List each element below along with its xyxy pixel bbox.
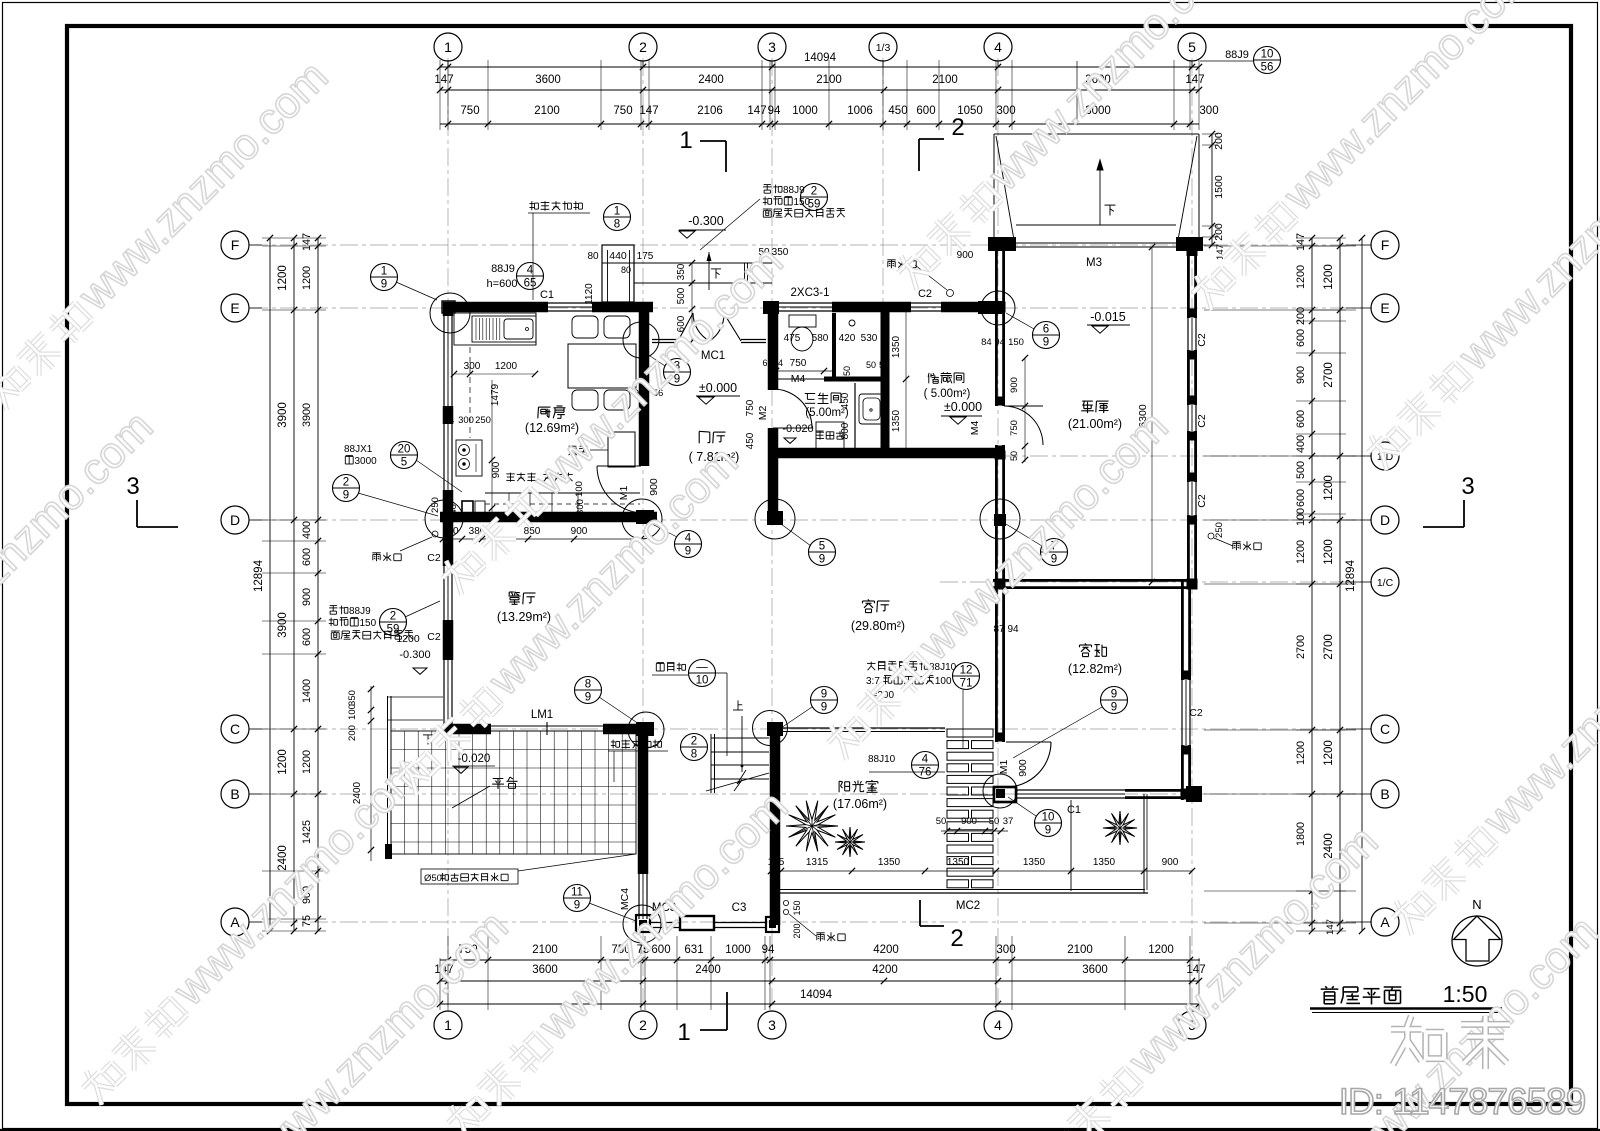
svg-text:-0.300: -0.300 bbox=[688, 214, 723, 228]
svg-text:300: 300 bbox=[464, 361, 481, 372]
svg-text:2100: 2100 bbox=[932, 74, 958, 86]
svg-text:4200: 4200 bbox=[872, 964, 898, 976]
svg-text:88J9: 88J9 bbox=[349, 606, 371, 617]
svg-text:900: 900 bbox=[571, 526, 588, 537]
svg-text:250: 250 bbox=[475, 415, 491, 426]
svg-text:3: 3 bbox=[126, 473, 139, 500]
svg-text:12894: 12894 bbox=[253, 559, 265, 592]
svg-text:2: 2 bbox=[950, 925, 963, 952]
svg-text:3900: 3900 bbox=[277, 612, 289, 638]
svg-text:300: 300 bbox=[996, 944, 1015, 956]
svg-text:1200: 1200 bbox=[1323, 264, 1335, 290]
svg-text:9: 9 bbox=[1111, 702, 1117, 714]
svg-text:10: 10 bbox=[1261, 49, 1274, 61]
svg-text:1200: 1200 bbox=[1323, 539, 1335, 565]
svg-text:1000: 1000 bbox=[792, 105, 818, 117]
svg-text:600: 600 bbox=[916, 105, 935, 117]
svg-text:88J9: 88J9 bbox=[1225, 49, 1249, 61]
svg-text:147: 147 bbox=[1325, 919, 1336, 935]
svg-text:3: 3 bbox=[1461, 473, 1474, 500]
svg-text:20: 20 bbox=[398, 444, 411, 456]
svg-text:80: 80 bbox=[621, 265, 631, 275]
svg-text:Ø50: Ø50 bbox=[424, 873, 442, 884]
svg-text:500: 500 bbox=[676, 287, 687, 304]
svg-text:C2: C2 bbox=[1196, 494, 1208, 508]
svg-text:3: 3 bbox=[768, 1017, 776, 1033]
svg-text:9: 9 bbox=[343, 490, 349, 502]
svg-text:50: 50 bbox=[842, 366, 852, 376]
svg-text:175: 175 bbox=[637, 251, 654, 262]
svg-text:C2: C2 bbox=[1196, 414, 1208, 428]
svg-text:5: 5 bbox=[819, 541, 825, 553]
svg-text:M3: M3 bbox=[1086, 257, 1102, 269]
svg-text:F: F bbox=[1381, 237, 1390, 253]
svg-text:±0.000: ±0.000 bbox=[944, 400, 982, 414]
svg-text:2700: 2700 bbox=[1323, 362, 1335, 388]
svg-text:100: 100 bbox=[1295, 508, 1307, 526]
svg-text:50: 50 bbox=[879, 360, 889, 370]
svg-text:1350: 1350 bbox=[891, 335, 902, 358]
svg-text:A: A bbox=[1380, 914, 1390, 930]
svg-text:94: 94 bbox=[768, 105, 781, 117]
svg-text:94: 94 bbox=[444, 415, 455, 426]
svg-text:MC2: MC2 bbox=[956, 900, 980, 912]
svg-text:LM1: LM1 bbox=[531, 709, 553, 721]
svg-text:2XC3-1: 2XC3-1 bbox=[791, 287, 830, 299]
svg-text:12894: 12894 bbox=[1345, 559, 1357, 592]
svg-text:2: 2 bbox=[343, 477, 349, 489]
svg-text:3600: 3600 bbox=[535, 74, 561, 86]
svg-text:71: 71 bbox=[960, 678, 973, 690]
svg-text:450: 450 bbox=[745, 432, 756, 449]
svg-text:420: 420 bbox=[839, 333, 856, 344]
svg-text:-0.015: -0.015 bbox=[1090, 310, 1125, 324]
svg-text:440: 440 bbox=[609, 250, 627, 262]
svg-text:1200: 1200 bbox=[1295, 265, 1307, 289]
svg-text:12: 12 bbox=[960, 665, 973, 677]
svg-text:1400: 1400 bbox=[301, 679, 313, 703]
svg-text:100: 100 bbox=[347, 704, 358, 720]
svg-text:2: 2 bbox=[639, 1017, 647, 1033]
svg-text:800: 800 bbox=[840, 422, 851, 439]
svg-text:900: 900 bbox=[957, 250, 974, 261]
svg-text:M1: M1 bbox=[998, 760, 1010, 775]
svg-text:1800: 1800 bbox=[1295, 822, 1307, 846]
svg-text:70: 70 bbox=[447, 526, 459, 537]
svg-text:580: 580 bbox=[812, 333, 829, 344]
svg-text:750: 750 bbox=[790, 358, 807, 369]
svg-text:80: 80 bbox=[587, 251, 599, 262]
svg-text:2: 2 bbox=[639, 39, 647, 55]
svg-text:1/C: 1/C bbox=[1377, 577, 1394, 589]
svg-text:200: 200 bbox=[347, 725, 358, 741]
svg-text:9: 9 bbox=[574, 900, 580, 912]
svg-text:750: 750 bbox=[745, 399, 756, 416]
svg-text:3900: 3900 bbox=[277, 402, 289, 428]
svg-text:9: 9 bbox=[821, 689, 827, 701]
svg-text:5: 5 bbox=[1188, 39, 1196, 55]
svg-text:C2: C2 bbox=[427, 552, 441, 564]
svg-text:4: 4 bbox=[994, 39, 1002, 55]
svg-text:1200: 1200 bbox=[277, 749, 289, 775]
svg-text:750: 750 bbox=[613, 105, 632, 117]
svg-text:1200: 1200 bbox=[301, 266, 313, 290]
svg-text:250: 250 bbox=[1214, 522, 1225, 538]
svg-text:M4: M4 bbox=[791, 373, 806, 385]
svg-text:1350: 1350 bbox=[1093, 857, 1116, 868]
svg-text:F: F bbox=[231, 237, 240, 253]
svg-text:475: 475 bbox=[784, 333, 801, 344]
svg-text:54: 54 bbox=[773, 358, 783, 368]
svg-text:5: 5 bbox=[401, 457, 407, 469]
svg-text:750: 750 bbox=[460, 105, 479, 117]
svg-text:2106: 2106 bbox=[697, 105, 723, 117]
svg-text:147: 147 bbox=[1295, 233, 1307, 251]
svg-text:600: 600 bbox=[1295, 489, 1307, 507]
svg-text:500: 500 bbox=[1295, 461, 1307, 479]
svg-text:10: 10 bbox=[1042, 812, 1055, 824]
svg-text:75: 75 bbox=[301, 915, 313, 927]
svg-text:1: 1 bbox=[444, 39, 452, 55]
svg-text:C2: C2 bbox=[427, 631, 441, 643]
svg-text:350: 350 bbox=[676, 263, 687, 280]
svg-text:450: 450 bbox=[840, 392, 851, 409]
svg-text:9: 9 bbox=[1111, 689, 1117, 701]
svg-text:147: 147 bbox=[747, 105, 766, 117]
svg-text:1: 1 bbox=[444, 1017, 452, 1033]
svg-text:C1: C1 bbox=[540, 289, 554, 301]
svg-text:65: 65 bbox=[524, 278, 537, 290]
svg-text:—: — bbox=[696, 662, 708, 674]
svg-text:B: B bbox=[230, 786, 239, 802]
svg-text:(29.80m²): (29.80m²) bbox=[851, 619, 905, 633]
svg-text:1200: 1200 bbox=[1295, 741, 1307, 765]
svg-text:9: 9 bbox=[1043, 337, 1049, 349]
svg-text:200: 200 bbox=[792, 923, 802, 938]
svg-text:h=600: h=600 bbox=[487, 278, 518, 290]
svg-text:1350: 1350 bbox=[1023, 857, 1046, 868]
svg-text:56: 56 bbox=[1261, 62, 1274, 74]
svg-text:600: 600 bbox=[1295, 329, 1307, 347]
svg-text:900: 900 bbox=[301, 588, 313, 606]
svg-text:250: 250 bbox=[430, 497, 441, 513]
svg-text:3000: 3000 bbox=[355, 456, 378, 467]
svg-text:600: 600 bbox=[301, 628, 313, 646]
svg-text:2700: 2700 bbox=[1323, 634, 1335, 660]
svg-text:C: C bbox=[230, 721, 240, 737]
svg-text:1200: 1200 bbox=[277, 265, 289, 291]
svg-text:9: 9 bbox=[819, 554, 825, 566]
svg-text:100: 100 bbox=[935, 676, 952, 687]
svg-text:4200: 4200 bbox=[873, 944, 899, 956]
svg-text:2: 2 bbox=[811, 186, 817, 198]
svg-text:-0.300: -0.300 bbox=[399, 649, 430, 661]
svg-text:D: D bbox=[1380, 512, 1390, 528]
svg-text:3: 3 bbox=[768, 39, 776, 55]
svg-text:2100: 2100 bbox=[532, 944, 558, 956]
svg-text:1315: 1315 bbox=[806, 857, 829, 868]
svg-text:350: 350 bbox=[347, 690, 358, 706]
svg-text:1200: 1200 bbox=[1323, 475, 1335, 501]
svg-text:3900: 3900 bbox=[301, 403, 313, 427]
svg-text:4: 4 bbox=[685, 533, 692, 545]
svg-text:300: 300 bbox=[1199, 105, 1218, 117]
svg-text:10: 10 bbox=[696, 675, 709, 687]
svg-text:1: 1 bbox=[614, 206, 620, 218]
svg-text:150: 150 bbox=[792, 900, 802, 915]
svg-text:E: E bbox=[230, 300, 239, 316]
svg-text:9: 9 bbox=[1045, 825, 1051, 837]
svg-text:1: 1 bbox=[677, 1019, 690, 1046]
svg-text:( 5.00m²): ( 5.00m²) bbox=[924, 388, 971, 400]
svg-text:B: B bbox=[1380, 786, 1389, 802]
svg-text:37: 37 bbox=[1003, 816, 1014, 827]
svg-text:50: 50 bbox=[866, 360, 876, 370]
svg-text:450: 450 bbox=[888, 105, 907, 117]
svg-text:MC4: MC4 bbox=[619, 888, 631, 910]
svg-text:84 94: 84 94 bbox=[981, 337, 1005, 348]
svg-text:(21.00m²): (21.00m²) bbox=[1068, 417, 1122, 431]
svg-text:9: 9 bbox=[381, 279, 387, 291]
svg-text:1006: 1006 bbox=[847, 105, 873, 117]
svg-text:1200: 1200 bbox=[301, 750, 313, 774]
svg-text:600: 600 bbox=[301, 548, 313, 566]
svg-text:1: 1 bbox=[679, 127, 692, 154]
svg-text:900: 900 bbox=[1295, 366, 1307, 384]
svg-text:1120: 1120 bbox=[584, 283, 595, 305]
svg-text:C: C bbox=[1380, 721, 1390, 737]
svg-text:2400: 2400 bbox=[695, 964, 721, 976]
svg-text:200: 200 bbox=[1295, 307, 1307, 325]
svg-text:9: 9 bbox=[585, 692, 591, 704]
svg-text:N: N bbox=[1472, 897, 1481, 912]
svg-text:300: 300 bbox=[996, 105, 1015, 117]
svg-text:1350: 1350 bbox=[947, 857, 970, 868]
svg-text:1500: 1500 bbox=[1213, 175, 1225, 199]
svg-text:88JX1: 88JX1 bbox=[344, 444, 373, 455]
svg-text:2: 2 bbox=[390, 611, 396, 623]
svg-text:3600: 3600 bbox=[532, 964, 558, 976]
svg-text:900: 900 bbox=[961, 816, 977, 827]
svg-text:300: 300 bbox=[458, 415, 474, 426]
svg-text:ID: 1147876589: ID: 1147876589 bbox=[1339, 1081, 1586, 1122]
svg-text:88J9: 88J9 bbox=[491, 263, 515, 275]
svg-text:900: 900 bbox=[491, 461, 502, 478]
svg-text:-0.020: -0.020 bbox=[458, 753, 491, 765]
svg-text:88J9: 88J9 bbox=[783, 185, 805, 196]
svg-text:4: 4 bbox=[922, 754, 929, 766]
svg-text:76: 76 bbox=[919, 767, 932, 779]
svg-text:2400: 2400 bbox=[698, 74, 724, 86]
svg-text:2: 2 bbox=[951, 114, 964, 141]
svg-text:1200: 1200 bbox=[495, 361, 518, 372]
svg-text:94: 94 bbox=[762, 944, 775, 956]
svg-text:750: 750 bbox=[1009, 420, 1020, 436]
svg-text:600: 600 bbox=[1295, 410, 1307, 428]
svg-text:400: 400 bbox=[301, 521, 313, 539]
svg-text:900: 900 bbox=[1009, 377, 1020, 393]
svg-text:147: 147 bbox=[301, 233, 313, 251]
svg-text:300: 300 bbox=[575, 499, 586, 515]
svg-text:2100: 2100 bbox=[1067, 944, 1093, 956]
svg-text:850: 850 bbox=[524, 526, 541, 537]
svg-text:1350: 1350 bbox=[891, 409, 902, 432]
svg-text:E: E bbox=[1380, 300, 1389, 316]
svg-text:900: 900 bbox=[1162, 857, 1179, 868]
svg-text:M1: M1 bbox=[618, 486, 630, 501]
svg-text:147: 147 bbox=[1185, 74, 1204, 86]
svg-text:50: 50 bbox=[1009, 451, 1019, 461]
svg-text:1200: 1200 bbox=[1148, 944, 1174, 956]
svg-text:1479: 1479 bbox=[490, 383, 501, 406]
svg-text:1200: 1200 bbox=[396, 633, 420, 645]
svg-text:M4: M4 bbox=[969, 421, 981, 436]
svg-text:9: 9 bbox=[821, 702, 827, 714]
svg-text:1: 1 bbox=[381, 266, 387, 278]
svg-text:C1: C1 bbox=[1067, 804, 1081, 816]
svg-text:6: 6 bbox=[1043, 324, 1049, 336]
svg-text:8: 8 bbox=[614, 219, 620, 231]
svg-text:C2: C2 bbox=[918, 288, 932, 300]
svg-text:88J10: 88J10 bbox=[868, 754, 896, 765]
svg-text:C2: C2 bbox=[1196, 333, 1208, 347]
svg-text:50: 50 bbox=[936, 816, 947, 827]
svg-text:-0.020: -0.020 bbox=[782, 423, 813, 435]
svg-text:240: 240 bbox=[448, 504, 459, 520]
svg-text:400: 400 bbox=[1295, 435, 1307, 453]
svg-text:1350: 1350 bbox=[878, 857, 901, 868]
svg-text:4: 4 bbox=[527, 265, 534, 277]
svg-text:8: 8 bbox=[691, 749, 697, 761]
svg-text:150: 150 bbox=[1008, 337, 1024, 348]
svg-text:9: 9 bbox=[685, 546, 691, 558]
svg-text:1200: 1200 bbox=[1295, 540, 1307, 564]
svg-text:3600: 3600 bbox=[1082, 964, 1108, 976]
svg-text:631: 631 bbox=[684, 944, 703, 956]
svg-text:D: D bbox=[230, 512, 240, 528]
svg-text:C3: C3 bbox=[732, 902, 747, 914]
svg-text:C2: C2 bbox=[1189, 707, 1203, 719]
svg-text:87: 87 bbox=[993, 624, 1005, 635]
svg-text:(12.82m²): (12.82m²) bbox=[1068, 662, 1122, 676]
svg-text:1200: 1200 bbox=[1323, 740, 1335, 766]
svg-text:8: 8 bbox=[585, 679, 591, 691]
svg-text:2700: 2700 bbox=[1295, 635, 1307, 659]
svg-text:147: 147 bbox=[434, 74, 453, 86]
svg-text:94: 94 bbox=[1007, 624, 1019, 635]
svg-text:50: 50 bbox=[989, 816, 1000, 827]
svg-text:1/3: 1/3 bbox=[876, 42, 891, 54]
svg-text:M2: M2 bbox=[757, 406, 769, 421]
svg-text:150: 150 bbox=[794, 197, 811, 208]
svg-text:4: 4 bbox=[994, 1017, 1002, 1033]
svg-text:11: 11 bbox=[571, 887, 583, 899]
svg-text:150: 150 bbox=[360, 618, 377, 629]
svg-text:1000: 1000 bbox=[725, 944, 751, 956]
svg-text:6: 6 bbox=[762, 358, 767, 368]
svg-text:14094: 14094 bbox=[800, 989, 833, 1001]
svg-text:2100: 2100 bbox=[534, 105, 560, 117]
svg-text:2: 2 bbox=[691, 736, 697, 748]
svg-text:200: 200 bbox=[1213, 132, 1225, 150]
svg-text:185: 185 bbox=[768, 857, 785, 868]
svg-text:±0.000: ±0.000 bbox=[699, 381, 737, 395]
svg-text:900: 900 bbox=[1017, 759, 1029, 777]
svg-text:14094: 14094 bbox=[804, 52, 837, 64]
svg-text:530: 530 bbox=[861, 333, 878, 344]
svg-text:(17.06m²): (17.06m²) bbox=[833, 797, 887, 811]
